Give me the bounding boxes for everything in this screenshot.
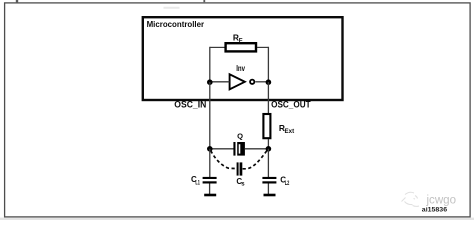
svg-text:OSC_IN: OSC_IN [174, 99, 206, 109]
svg-text:OSC_OUT: OSC_OUT [271, 99, 311, 109]
stray capacitance dashed link right [243, 151, 267, 169]
wire: inverter output [255, 81, 268, 83]
pin label OSC_IN [174, 99, 206, 109]
svg-text:ai15836: ai15836 [422, 207, 448, 214]
wire: left vertical (feedback to inverter input) [209, 47, 211, 82]
node dot: OSC_OUT external node [266, 146, 272, 152]
ground CL2 [264, 194, 276, 197]
node dot: inverter output junction [266, 79, 272, 85]
wire: OSC_IN pin (left vertical through box edge) [209, 82, 211, 149]
wire: CL1 bottom lead [209, 184, 211, 195]
wire: RExt bottom to node [267, 139, 269, 149]
svg-text:L1: L1 [195, 181, 200, 187]
pin label OSC_OUT [271, 99, 311, 109]
svg-text:L2: L2 [285, 181, 290, 187]
node dot: inverter input junction [207, 79, 213, 85]
wire: OSC_OUT pin (right vertical to RExt) [267, 82, 269, 114]
inverter U (Inv) [230, 63, 255, 89]
crystal Q [233, 132, 245, 156]
svg-text:F: F [239, 38, 243, 45]
cropped text remnant smudge [164, 7, 180, 9]
cropped text remnant tick left [16, 0, 18, 2]
microcontroller box [143, 17, 343, 100]
watermark logo doodle [402, 192, 420, 206]
wire: CL2 top lead [267, 149, 269, 177]
watermark text jcwgo [426, 192, 457, 206]
svg-text:Inv: Inv [236, 63, 245, 73]
capacitor CL1 [191, 175, 217, 187]
capacitor CL2 [262, 175, 289, 186]
svg-text:Q: Q [237, 132, 243, 141]
wire: inverter input [210, 81, 230, 83]
svg-text:Microcontroller: Microcontroller [147, 19, 205, 29]
stray capacitance dashed link left [211, 151, 237, 169]
cropped text remnant tick right [203, 0, 205, 2]
wire: feedback right horizontal [257, 46, 268, 48]
wire: CL1 top lead [209, 149, 211, 177]
wire: right vertical (feedback to inverter output) [267, 47, 269, 82]
resistor RF [226, 33, 256, 52]
wire: node row left (OSC_IN node to crystal) [210, 148, 234, 150]
wire: node row right (crystal to OSC_OUT node) [245, 148, 268, 150]
svg-text:jcwgo: jcwgo [426, 192, 457, 206]
wire: CL2 bottom lead [267, 184, 269, 195]
ground CL1 [204, 194, 216, 197]
figure id ai15836 [422, 207, 448, 214]
node dot: OSC_IN external node [207, 146, 213, 152]
svg-text:Ext: Ext [285, 128, 295, 135]
resistor RExt [263, 114, 294, 138]
wire: feedback left horizontal [210, 46, 225, 48]
capacitor Cs (stray) [236, 162, 245, 187]
